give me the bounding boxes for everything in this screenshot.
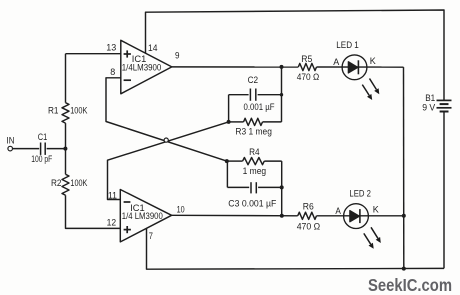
svg-text:470 Ω: 470 Ω xyxy=(297,72,320,83)
svg-text:R3 1 meg: R3 1 meg xyxy=(235,126,272,137)
svg-text:R4: R4 xyxy=(249,147,260,158)
svg-text:SeekIC.com: SeekIC.com xyxy=(368,275,452,295)
svg-text:10: 10 xyxy=(177,205,185,216)
svg-text:LED 2: LED 2 xyxy=(349,189,371,200)
svg-text:470 Ω: 470 Ω xyxy=(297,222,321,233)
svg-text:LED 1: LED 1 xyxy=(336,40,359,51)
svg-text:13: 13 xyxy=(106,43,116,54)
svg-text:R1: R1 xyxy=(48,106,59,117)
svg-text:1/4 LM3900: 1/4 LM3900 xyxy=(122,211,163,222)
svg-text:0.001 µF: 0.001 µF xyxy=(244,102,275,113)
svg-text:14: 14 xyxy=(148,43,158,54)
svg-text:A: A xyxy=(335,206,341,217)
svg-text:C1: C1 xyxy=(38,132,48,143)
svg-text:9: 9 xyxy=(175,51,180,62)
svg-text:100K: 100K xyxy=(70,106,88,117)
svg-text:R2: R2 xyxy=(51,178,62,189)
svg-text:100 pF: 100 pF xyxy=(31,154,52,165)
svg-text:11: 11 xyxy=(108,190,117,201)
svg-text:8: 8 xyxy=(110,67,115,78)
svg-text:1 meg: 1 meg xyxy=(243,166,267,177)
svg-text:K: K xyxy=(373,205,380,216)
svg-text:K: K xyxy=(370,56,377,67)
svg-text:100K: 100K xyxy=(70,178,88,189)
svg-text:1/4LM3900: 1/4LM3900 xyxy=(122,63,162,74)
svg-text:R6: R6 xyxy=(303,202,314,213)
svg-text:C2: C2 xyxy=(248,75,259,86)
svg-text:12: 12 xyxy=(107,218,117,229)
svg-text:IN: IN xyxy=(7,135,15,146)
svg-text:A: A xyxy=(333,57,340,68)
svg-text:R5: R5 xyxy=(301,54,312,65)
svg-text:7: 7 xyxy=(149,231,153,242)
svg-text:C3 0.001 µF: C3 0.001 µF xyxy=(228,199,276,210)
svg-text:9 V: 9 V xyxy=(422,102,436,113)
